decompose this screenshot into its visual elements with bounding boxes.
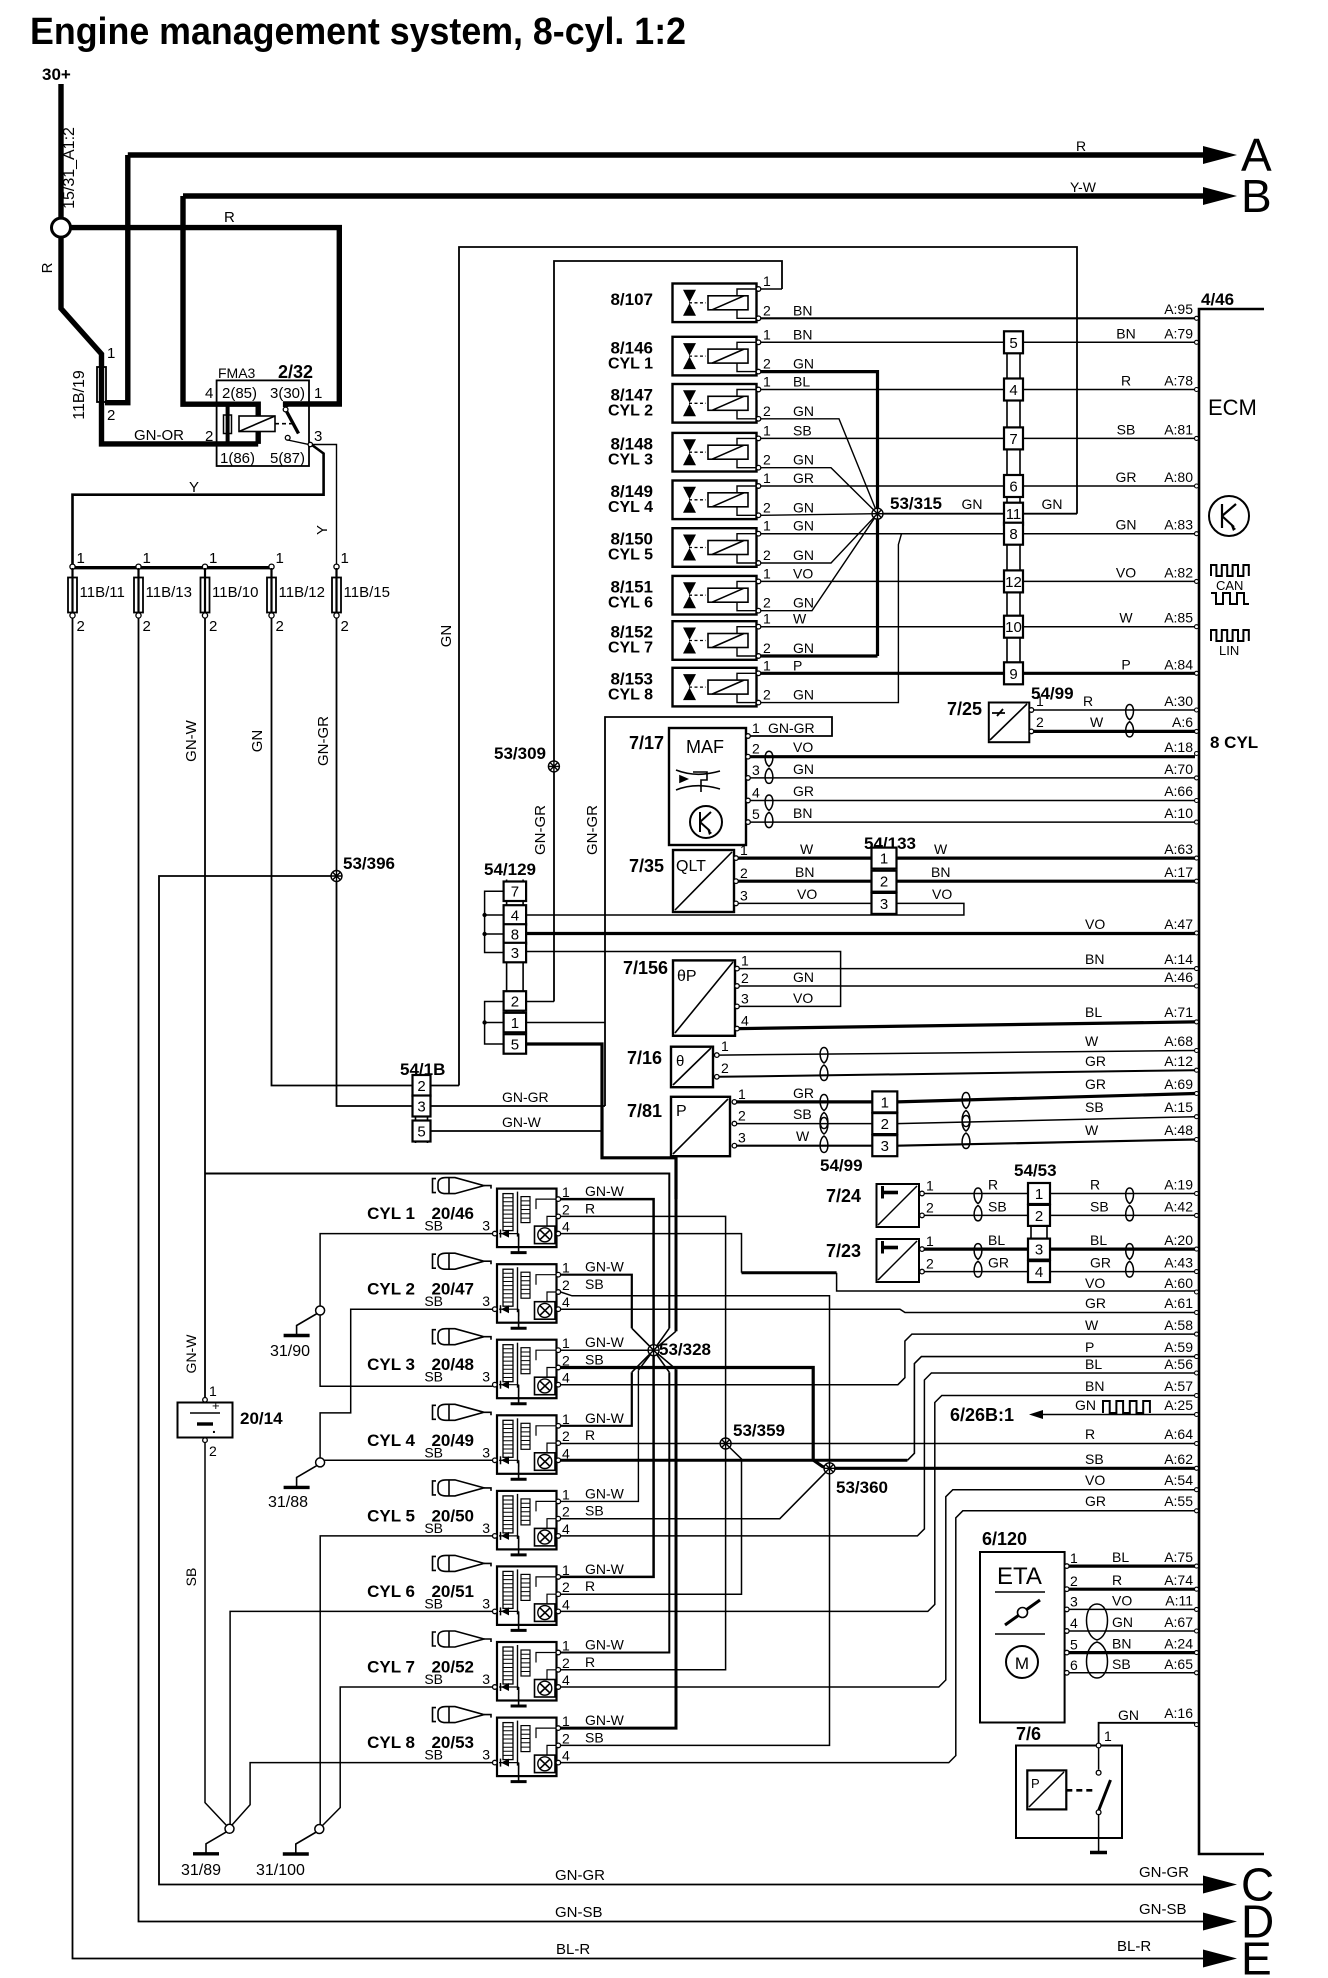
svg-text:VO: VO	[797, 886, 817, 902]
wire 53/360 branch CYL5	[561, 1468, 830, 1518]
svg-text:4: 4	[205, 385, 213, 402]
svg-text:7/25: 7/25	[947, 699, 982, 719]
svg-text:4: 4	[562, 1672, 570, 1688]
fuse 11B/11 element	[71, 568, 73, 614]
sensor 7/35 QLT box	[673, 850, 734, 912]
fuse 11B/19 body	[97, 367, 106, 402]
svg-text:3: 3	[482, 1444, 490, 1460]
wire 7/24 pin1 R	[924, 1193, 1028, 1195]
wire 54/129 cell3 to 7/156 pin3	[526, 952, 841, 1007]
wire CYL2 pin3 bus	[320, 1309, 492, 1458]
wire CYL4 pin4 thick segment	[561, 1459, 908, 1462]
wire CYL8 pin4 to A:55	[561, 1511, 1195, 1763]
wire GN-W CYL5 pin1 branch	[561, 1370, 639, 1501]
svg-text:1: 1	[721, 1038, 729, 1054]
wire 54/99 GR to A:69	[897, 1094, 1195, 1102]
svg-text:A:54: A:54	[1164, 1472, 1193, 1488]
svg-text:A:85: A:85	[1164, 610, 1193, 626]
svg-text:R: R	[1090, 1177, 1100, 1193]
svg-text:R: R	[988, 1177, 998, 1193]
svg-text:4: 4	[562, 1596, 570, 1612]
svg-text:1: 1	[209, 1383, 217, 1399]
svg-text:GR: GR	[1085, 1076, 1106, 1092]
wire 8/148 pin2 GN	[761, 468, 878, 514]
coil 20/51 pin1	[556, 1575, 561, 1580]
ECM CAN pulse upper	[1211, 565, 1249, 576]
svg-text:BN: BN	[1116, 325, 1135, 341]
svg-text:W: W	[1090, 714, 1104, 730]
fuse 11B/12 pin1	[269, 564, 274, 569]
wire 8/107 pin2 BN to A:95	[761, 317, 1195, 319]
svg-text:2: 2	[511, 994, 519, 1011]
svg-text:BN: BN	[931, 864, 950, 880]
wire CYL2 pin1 GN-W down	[561, 1275, 632, 1329]
svg-text:R: R	[585, 1427, 595, 1443]
wire 7/81 GR to cell1	[737, 1100, 873, 1103]
svg-text:5: 5	[1070, 1637, 1078, 1653]
svg-text:11: 11	[1006, 506, 1022, 523]
svg-text:Y-W: Y-W	[1070, 179, 1097, 195]
arrow B	[1203, 187, 1237, 205]
svg-text:53/396: 53/396	[343, 854, 395, 873]
svg-text:GN-GR: GN-GR	[1139, 1864, 1189, 1881]
svg-text:2: 2	[741, 970, 749, 986]
7/156 pin1	[735, 966, 740, 971]
7/156 pin2	[735, 984, 740, 989]
7/24 pin2	[920, 1213, 925, 1218]
svg-text:A:62: A:62	[1164, 1451, 1193, 1467]
coil 20/52 pin3	[493, 1685, 498, 1690]
svg-text:8: 8	[1009, 526, 1017, 543]
wire 53/360 to A:62	[830, 1467, 1196, 1470]
svg-text:GN: GN	[1042, 496, 1063, 512]
svg-text:GN-W: GN-W	[585, 1334, 625, 1350]
coil 20/49 pin2	[556, 1441, 561, 1446]
pressure switch 7/6 box	[1016, 1746, 1122, 1839]
ignition coil 20/48 CYL 3	[497, 1340, 557, 1404]
svg-text:SB: SB	[793, 422, 812, 438]
twist A69 pair	[962, 1093, 970, 1127]
svg-text:1: 1	[738, 1086, 746, 1102]
wire 7/23 pin2 GR	[924, 1271, 1028, 1273]
7/17 pin5	[746, 820, 751, 825]
svg-text:5: 5	[511, 1037, 519, 1054]
svg-text:1: 1	[741, 953, 749, 969]
svg-text:CYL 8: CYL 8	[608, 686, 653, 703]
fuse 11B/13 element	[137, 568, 139, 614]
svg-text:A:64: A:64	[1164, 1426, 1193, 1442]
fuse 11B/15 pin1	[334, 564, 339, 569]
svg-text:BN: BN	[793, 302, 812, 318]
7/35 pin1	[734, 856, 739, 861]
svg-text:SB: SB	[1090, 1198, 1109, 1214]
connector 54/133	[875, 850, 894, 914]
svg-text:3: 3	[482, 1293, 490, 1309]
svg-text:8: 8	[511, 927, 519, 944]
coil 20/49 pin4	[556, 1458, 561, 1463]
svg-text:7/23: 7/23	[826, 1241, 861, 1261]
wire A:19	[1050, 1193, 1195, 1195]
MAF K symbol	[690, 806, 722, 838]
svg-text:SB: SB	[424, 1595, 443, 1611]
wire cell to ECM A:83	[1023, 533, 1195, 535]
wire cell to ECM A:82	[1023, 580, 1195, 582]
svg-text:GN: GN	[793, 356, 814, 372]
injector 8/152 pin2	[756, 654, 761, 659]
svg-text:BL: BL	[988, 1232, 1005, 1248]
svg-text:GN-W: GN-W	[183, 1334, 199, 1374]
wire CYL4 pin2 R to A:64	[561, 1443, 1195, 1445]
wire CYL3 pin1 to 53/328	[561, 1349, 654, 1351]
wire CYL1 pin1 to CYL6 pin1 GN-W	[561, 1199, 654, 1577]
svg-text:3: 3	[1035, 1242, 1043, 1259]
svg-text:A:14: A:14	[1164, 951, 1193, 967]
svg-text:2: 2	[107, 407, 115, 424]
svg-text:GN: GN	[1075, 1397, 1096, 1413]
relay pin2 internal	[217, 441, 258, 446]
wire A:25 GN	[1041, 1414, 1195, 1416]
7/81 pin1	[732, 1100, 737, 1105]
svg-text:A:15: A:15	[1164, 1099, 1193, 1115]
svg-text:2: 2	[763, 302, 771, 318]
relay coil to pin2 wire	[256, 432, 261, 444]
injector 8/147	[673, 384, 758, 423]
svg-text:BL: BL	[793, 374, 810, 390]
svg-text:A:59: A:59	[1164, 1339, 1193, 1355]
wire A arrow line	[128, 152, 1203, 157]
svg-text:4: 4	[562, 1370, 570, 1386]
svg-text:BL: BL	[1085, 1004, 1102, 1020]
injector 8/107 pin2	[756, 316, 761, 321]
relay 2/32 box	[217, 380, 309, 466]
svg-text:CYL 2: CYL 2	[367, 1280, 415, 1299]
svg-text:SB: SB	[988, 1198, 1007, 1214]
svg-text:SB: SB	[1117, 421, 1136, 437]
svg-text:2: 2	[417, 1078, 425, 1095]
svg-text:M: M	[1015, 1654, 1029, 1673]
twist 7/16 pair	[820, 1048, 828, 1081]
svg-text:7/81: 7/81	[627, 1101, 662, 1121]
relay switch dashed link	[275, 423, 293, 425]
svg-text:θ: θ	[676, 1053, 684, 1070]
arrow A	[1203, 146, 1237, 164]
wire 7/24 pin2 SB	[924, 1214, 1028, 1216]
svg-text:31/88: 31/88	[268, 1494, 308, 1511]
svg-text:QLT: QLT	[676, 858, 706, 875]
wire 7/81 SB to cell2	[737, 1123, 873, 1125]
7/23 pin1	[920, 1247, 925, 1252]
twist A:19 pair	[1126, 1188, 1134, 1221]
svg-text:2: 2	[209, 618, 217, 635]
svg-text:GN-GR: GN-GR	[584, 805, 601, 855]
wire 7/6 pin1 GN to A:16	[1099, 1723, 1195, 1743]
svg-text:2: 2	[752, 741, 760, 757]
svg-text:3: 3	[738, 1130, 746, 1146]
svg-text:1(86): 1(86)	[220, 450, 255, 467]
svg-text:A:47: A:47	[1164, 916, 1193, 932]
wire injector pin1 to cell	[761, 580, 1004, 582]
7/16 pin1	[715, 1053, 720, 1058]
svg-text:W: W	[1119, 610, 1133, 626]
svg-text:1: 1	[763, 273, 771, 289]
wire cell to ECM A:80	[1023, 485, 1195, 487]
svg-text:A:81: A:81	[1164, 421, 1193, 437]
svg-text:LIN: LIN	[1219, 643, 1239, 658]
svg-text:A:20: A:20	[1164, 1232, 1193, 1248]
svg-text:GN-W: GN-W	[183, 719, 200, 761]
wire 8/147 pin2 GN	[761, 419, 878, 514]
svg-text:BN: BN	[793, 805, 812, 821]
svg-text:R: R	[1085, 1426, 1095, 1442]
svg-text:1: 1	[562, 1638, 570, 1654]
svg-text:3: 3	[482, 1369, 490, 1385]
injector 8/153	[673, 668, 758, 707]
svg-text:A:43: A:43	[1164, 1255, 1193, 1271]
coil 20/51 pin2	[556, 1592, 561, 1597]
wire cell to ECM A:81	[1023, 437, 1195, 439]
svg-text:SB: SB	[585, 1729, 604, 1745]
relay pin3 edge contact	[308, 442, 312, 446]
wire QLT BN to cell2	[738, 880, 872, 883]
svg-text:GN-W: GN-W	[585, 1259, 625, 1275]
svg-text:5: 5	[752, 806, 760, 822]
svg-text:3: 3	[880, 896, 888, 913]
svg-text:CYL 6: CYL 6	[367, 1582, 415, 1601]
svg-text:BN: BN	[1112, 1636, 1131, 1652]
fuse 11B/12 pin2	[269, 613, 274, 618]
wire 11B/10 GN-W down	[204, 618, 206, 1398]
fuse 11B/10 body	[201, 578, 210, 613]
svg-text:A:79: A:79	[1164, 325, 1193, 341]
svg-text:W: W	[1085, 1317, 1099, 1333]
wire A:43	[1050, 1271, 1195, 1273]
injector 8/146	[673, 337, 758, 376]
wire cell to ECM A:79	[1023, 341, 1195, 343]
svg-text:BN: BN	[1085, 951, 1104, 967]
svg-text:3: 3	[511, 945, 519, 962]
fuse 11B/13 body	[134, 578, 143, 613]
wire 7/6 switch top	[1098, 1748, 1100, 1770]
fuse 11B/10 pin2	[202, 613, 207, 618]
wire CYL4 pin3 link	[320, 1459, 492, 1461]
svg-text:1: 1	[763, 470, 771, 486]
svg-text:GN-OR: GN-OR	[134, 427, 184, 444]
svg-text:4/46: 4/46	[1201, 290, 1234, 309]
svg-text:1: 1	[1036, 693, 1044, 709]
wire CYL5 pin4 to A:56	[561, 1373, 1195, 1536]
MAF airflow symbol	[676, 770, 720, 792]
svg-text:VO: VO	[932, 886, 952, 902]
svg-text:VO: VO	[793, 739, 813, 755]
svg-text:GN-GR: GN-GR	[315, 716, 332, 766]
7/156 pin3	[735, 1004, 740, 1009]
svg-text:A:80: A:80	[1164, 469, 1193, 485]
svg-text:2: 2	[926, 1256, 934, 1272]
svg-text:A:18: A:18	[1164, 739, 1193, 755]
svg-text:7: 7	[1009, 431, 1017, 448]
coil 20/49 pin1	[556, 1424, 561, 1429]
twist ETA pins 3-6	[1087, 1604, 1108, 1678]
wire CYL1 pin4 to A:60 part2	[837, 1273, 1195, 1291]
ground 31/88	[297, 1465, 318, 1487]
svg-text:4: 4	[562, 1219, 570, 1235]
battery 20/14 pin2	[203, 1438, 208, 1443]
svg-text:8 CYL: 8 CYL	[1210, 733, 1258, 752]
wire MAF pin4 GR to A:66	[750, 800, 1195, 802]
svg-text:A:83: A:83	[1164, 517, 1193, 533]
wire fuse bus	[73, 566, 272, 569]
wire CYL7 pin3 bus	[322, 1687, 493, 1826]
svg-text:31/89: 31/89	[181, 1862, 221, 1879]
svg-text:SB: SB	[424, 1218, 443, 1234]
svg-text:W: W	[1085, 1122, 1099, 1138]
connector 54/53	[1031, 1183, 1047, 1282]
svg-text:GN-GR: GN-GR	[502, 1089, 549, 1105]
svg-text:1: 1	[107, 345, 115, 362]
svg-text:1: 1	[1070, 1550, 1078, 1566]
node 15/31_A1:2 junction	[52, 218, 71, 237]
svg-text:W: W	[793, 611, 807, 627]
svg-text:GN: GN	[793, 969, 814, 985]
svg-text:Engine management system, 8-cy: Engine management system, 8-cyl. 1:2	[30, 11, 686, 53]
arrow E	[1203, 1950, 1237, 1968]
svg-text:1: 1	[752, 720, 760, 736]
svg-text:CYL 4: CYL 4	[367, 1431, 415, 1450]
fuse 11B/10 pin1	[202, 564, 207, 569]
wire 7/81 W to cell3	[737, 1145, 873, 1147]
7/24 pin1	[920, 1191, 925, 1196]
svg-text:CYL 6: CYL 6	[608, 594, 653, 611]
wire 54/133 BN to A:17	[897, 880, 1196, 883]
wire 7/156 pin1 BN to A:14	[739, 968, 1195, 970]
svg-text:GN-W: GN-W	[585, 1561, 625, 1577]
wire 11B/15 GN-GR down	[337, 618, 413, 1106]
twist 7/81 12	[820, 1095, 828, 1129]
svg-text:GN: GN	[1118, 1707, 1139, 1723]
svg-text:GN: GN	[793, 452, 814, 468]
ignition coil 20/52 CYL 7	[497, 1642, 557, 1706]
svg-text:A:46: A:46	[1164, 969, 1193, 985]
wire ETA GN to A:67	[1069, 1630, 1195, 1632]
wire 7/156 pin2 GN to A:46	[739, 985, 1195, 987]
7/17 pin2	[746, 754, 751, 759]
relay switch top contact	[283, 407, 288, 412]
svg-text:4: 4	[741, 1013, 749, 1029]
svg-text:P: P	[793, 657, 802, 673]
wire 11B/13 GN-SB to D	[139, 618, 1204, 1922]
svg-text:1: 1	[209, 550, 217, 567]
wire cell to ECM A:78	[1023, 389, 1195, 391]
svg-text:GN-SB: GN-SB	[555, 1904, 603, 1921]
ETA pin1	[1065, 1564, 1070, 1569]
twist 7/81 23	[820, 1118, 828, 1153]
svg-text:SB: SB	[585, 1503, 604, 1519]
fuse 11B/13 pin2	[136, 613, 141, 618]
svg-text:3: 3	[482, 1218, 490, 1234]
ETA pin3	[1065, 1607, 1070, 1612]
svg-text:P: P	[1085, 1339, 1094, 1355]
svg-text:GN: GN	[793, 595, 814, 611]
svg-text:GN: GN	[438, 625, 455, 648]
injector 8/107	[673, 284, 758, 323]
svg-text:4: 4	[1070, 1615, 1078, 1631]
wire B arrow line	[183, 193, 1203, 198]
fuse 11B/15 element	[335, 568, 337, 614]
coil 20/47 pin2	[556, 1290, 561, 1295]
svg-text:A:6: A:6	[1172, 714, 1193, 730]
twist MAF 4-5	[765, 795, 773, 828]
svg-text:1: 1	[562, 1335, 570, 1351]
54/129 left bracket 2-1-5	[485, 1002, 504, 1045]
svg-text:12: 12	[1005, 574, 1022, 591]
svg-text:R: R	[585, 1578, 595, 1594]
svg-text:SB: SB	[424, 1747, 443, 1763]
svg-text:A:95: A:95	[1164, 301, 1193, 317]
svg-text:W: W	[800, 841, 814, 857]
7/6 P sensor square	[1027, 1770, 1066, 1809]
svg-text:B: B	[1241, 170, 1272, 222]
svg-text:VO: VO	[793, 990, 813, 1006]
svg-text:GN: GN	[793, 518, 814, 534]
7/25 pin1	[1029, 708, 1034, 713]
wire CYL4 pin4 riser to A:59	[907, 1357, 1195, 1461]
sensor 7/16 box	[671, 1047, 713, 1088]
relay contact 30 stub	[286, 404, 309, 407]
wire CYL5 pin3 bus	[320, 1536, 492, 1824]
svg-text:A:60: A:60	[1164, 1275, 1193, 1291]
coil 20/52 pin1	[556, 1650, 561, 1655]
svg-text:BL-R: BL-R	[1117, 1938, 1151, 1955]
wire GN-W CYL7 branch lower	[561, 1372, 670, 1652]
twist 7/23 pair	[974, 1244, 982, 1278]
wire Y to 11B/15	[312, 445, 336, 566]
injector 8/149 pin2	[756, 513, 761, 518]
svg-text:Y: Y	[314, 525, 331, 535]
wire 54/133 VO jog	[526, 903, 964, 915]
ignition coil 20/46 CYL 1	[497, 1189, 557, 1253]
twist A48 pair	[962, 1116, 970, 1149]
7/25 pin2	[1029, 729, 1034, 734]
svg-text:2: 2	[763, 547, 771, 563]
wire 7/16 W to A:68	[719, 1051, 1195, 1056]
wire cell to ECM A:84	[1023, 672, 1195, 675]
svg-text:CAN: CAN	[1216, 578, 1243, 593]
svg-text:VO: VO	[1085, 1275, 1105, 1291]
svg-text:1: 1	[880, 851, 888, 868]
svg-text:SB: SB	[424, 1369, 443, 1385]
relay coil	[239, 416, 275, 432]
injector 8/148 pin1	[756, 436, 761, 441]
svg-text:CYL 7: CYL 7	[608, 640, 653, 657]
wire 7/156 pin4 BL to A:71	[739, 1022, 1195, 1029]
7/6 switch blade	[1099, 1780, 1111, 1810]
svg-text:7/16: 7/16	[627, 1048, 662, 1068]
svg-text:6/120: 6/120	[982, 1529, 1027, 1549]
svg-text:1: 1	[562, 1486, 570, 1502]
sensor 7/81 box	[671, 1097, 730, 1156]
coil 20/47 pin4	[556, 1307, 561, 1312]
svg-text:A:12: A:12	[1164, 1053, 1193, 1069]
relay resistor body	[224, 415, 232, 434]
svg-text:3: 3	[1070, 1593, 1078, 1609]
svg-text:ECM: ECM	[1208, 395, 1257, 420]
junction 53/359	[720, 1438, 731, 1449]
svg-text:VO: VO	[1112, 1592, 1132, 1608]
svg-text:1: 1	[763, 657, 771, 673]
svg-text:BL: BL	[1090, 1232, 1107, 1248]
svg-text:2: 2	[880, 874, 888, 891]
wire 7/25 W to A:6	[1034, 730, 1195, 733]
